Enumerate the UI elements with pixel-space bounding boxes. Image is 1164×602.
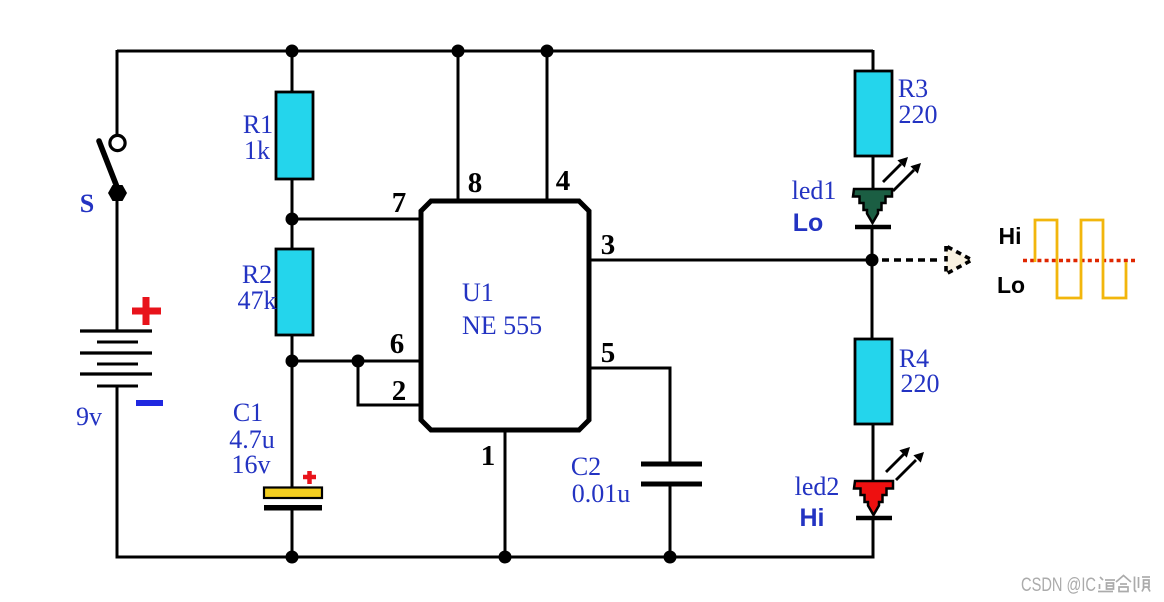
wire pin 3 to output node xyxy=(589,259,873,262)
junction output node xyxy=(866,254,879,267)
waveform red dotted baseline xyxy=(1023,259,1136,263)
svg-text:R3: R3 xyxy=(898,74,928,103)
svg-text:U1: U1 xyxy=(462,278,494,307)
battery minus sign xyxy=(136,400,163,406)
capacitor C2 xyxy=(641,462,702,487)
wire led2 to bottom bus xyxy=(872,520,875,559)
svg-text:8: 8 xyxy=(468,167,483,199)
svg-text:5: 5 xyxy=(601,337,616,369)
wire pin 4 xyxy=(546,51,549,203)
svg-text:4: 4 xyxy=(556,165,571,197)
svg-text:R2: R2 xyxy=(242,260,272,289)
resistor R4 xyxy=(855,339,892,424)
label U1 NE 555 xyxy=(462,278,542,340)
svg-text:NE 555: NE 555 xyxy=(462,311,542,340)
label led1 Lo xyxy=(792,176,837,237)
capacitor C1 xyxy=(264,488,322,511)
svg-text:2: 2 xyxy=(392,375,407,407)
svg-text:Hi: Hi xyxy=(800,504,825,532)
label R3 220 xyxy=(898,74,938,129)
wire R4 to led2 xyxy=(872,424,875,484)
label R2 47k xyxy=(238,260,277,315)
svg-text:led2: led2 xyxy=(795,472,840,501)
svg-text:Lo: Lo xyxy=(793,209,824,237)
resistor R1 xyxy=(276,92,313,179)
wire top bus to R1 xyxy=(291,51,294,94)
svg-text:6: 6 xyxy=(390,328,405,360)
LED led1 xyxy=(853,189,892,227)
battery plus sign xyxy=(132,297,161,325)
wire battery to bottom bus xyxy=(116,386,119,558)
svg-text:C1: C1 xyxy=(233,398,263,427)
wire node 7 to R2 xyxy=(291,219,294,251)
wire pin 6 xyxy=(292,360,421,363)
wire output node to R4 xyxy=(871,260,874,340)
wire switch to battery xyxy=(116,197,119,332)
svg-text:3: 3 xyxy=(601,229,616,261)
battery BT1 9v xyxy=(80,331,152,386)
svg-text:220: 220 xyxy=(901,369,940,398)
resistor R2 xyxy=(276,249,313,335)
wire top bus xyxy=(117,50,873,53)
junction top bus / pin 8 xyxy=(452,45,465,58)
capacitor C1 plus mark xyxy=(303,471,316,484)
label C2 0.01u xyxy=(571,452,630,508)
wire C2 to bottom bus xyxy=(669,486,672,557)
junction C2 / bottom bus xyxy=(664,551,677,564)
wire led1 to output node xyxy=(871,229,874,261)
svg-text:S: S xyxy=(80,189,94,218)
wire R2 to node 6 xyxy=(291,335,294,362)
waveform square wave xyxy=(1035,220,1126,298)
op-amp U1 NE 555 body xyxy=(421,201,589,430)
switch S xyxy=(99,135,127,201)
watermark glyph dao xyxy=(1098,577,1115,592)
LED led1 emission arrows xyxy=(883,157,921,191)
wire node 6 down to pin 2 xyxy=(358,361,421,405)
wire R1 to node 7 xyxy=(291,179,294,221)
watermark glyph he xyxy=(1116,576,1131,592)
wire pin 8 xyxy=(457,51,460,203)
svg-text:16v: 16v xyxy=(232,450,271,479)
svg-text:1: 1 xyxy=(481,440,496,472)
svg-text:led1: led1 xyxy=(792,176,837,205)
LED led2 xyxy=(854,481,893,518)
svg-text:220: 220 xyxy=(899,100,938,129)
junction C1 / bottom bus xyxy=(286,551,299,564)
wire left drop to switch xyxy=(116,50,119,137)
svg-text:1k: 1k xyxy=(244,136,270,165)
junction top bus / R1 xyxy=(286,45,299,58)
svg-text:CSDN @IC: CSDN @IC xyxy=(1021,575,1096,596)
wire pin 7 xyxy=(292,218,421,221)
junction top bus / pin 4 xyxy=(541,45,554,58)
wire node 6 to C1 xyxy=(291,361,294,489)
label R4 220 xyxy=(899,344,940,398)
svg-text:Hi: Hi xyxy=(999,223,1022,249)
svg-text:9v: 9v xyxy=(76,402,102,431)
junction node 7 xyxy=(286,213,299,226)
wire R3 to led1 xyxy=(872,156,875,192)
watermark glyph shun xyxy=(1135,577,1151,592)
svg-text:Lo: Lo xyxy=(997,272,1025,298)
resistor R3 xyxy=(855,71,892,156)
dashed output arrow xyxy=(882,246,972,274)
junction pin 1 / bottom bus xyxy=(499,551,512,564)
svg-text:7: 7 xyxy=(392,187,407,219)
svg-text:47k: 47k xyxy=(238,286,277,315)
watermark CSDN xyxy=(1021,575,1096,596)
wire pin 5 to C2 xyxy=(589,368,670,463)
LED led2 emission arrows xyxy=(886,447,924,480)
label led2 Hi xyxy=(795,472,840,532)
label R1 1k xyxy=(243,110,273,165)
junction node 6 left xyxy=(286,355,299,368)
label C1 4.7u 16v xyxy=(229,398,275,479)
wire bottom bus xyxy=(116,556,874,559)
svg-text:0.01u: 0.01u xyxy=(572,479,631,508)
wire C1 to bottom bus xyxy=(291,510,294,557)
svg-text:C2: C2 xyxy=(571,452,601,481)
wire top bus to R3 xyxy=(872,50,875,72)
svg-text:R1: R1 xyxy=(243,110,273,139)
junction node 6 mid xyxy=(352,355,365,368)
wire pin 1 xyxy=(504,428,507,557)
